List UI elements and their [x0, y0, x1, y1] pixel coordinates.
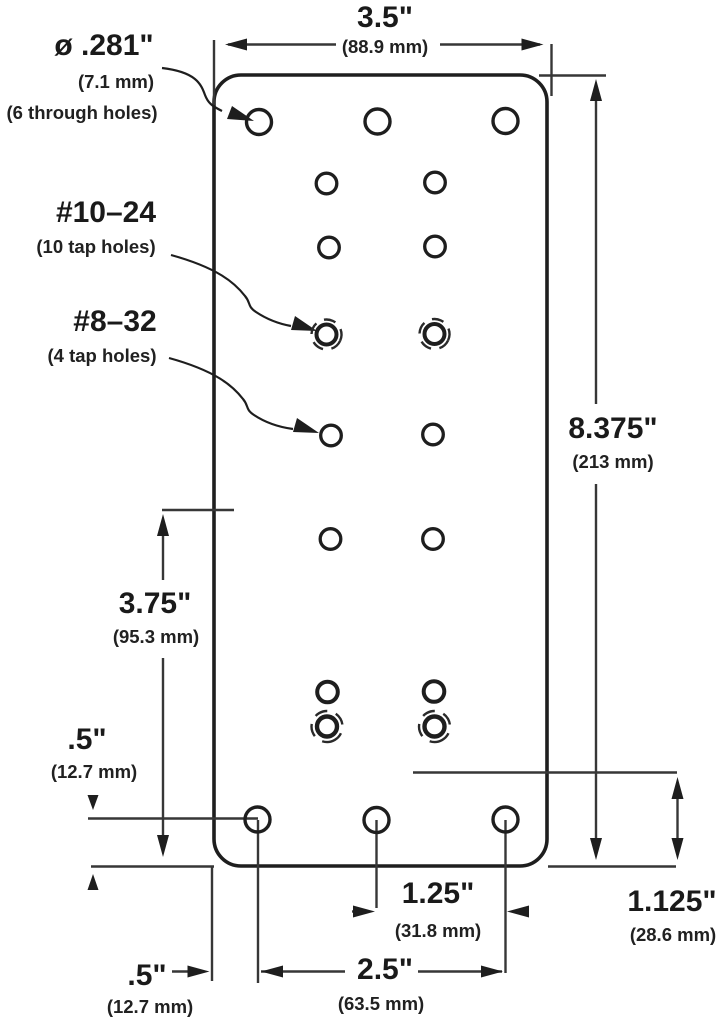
svg-text:ø .281": ø .281" [54, 29, 153, 62]
hole row3 left [319, 237, 340, 258]
svg-text:(31.8 mm): (31.8 mm) [395, 920, 481, 941]
extension line below middle bottom hole [375, 820, 377, 908]
svg-text:(213 mm): (213 mm) [572, 451, 653, 472]
svg-text:3.75": 3.75" [119, 587, 192, 620]
svg-text:8.375": 8.375" [568, 412, 657, 445]
extension line left of 3.5 dim [213, 40, 215, 105]
tap hole row4 left arcs [307, 315, 347, 355]
dimension line 3.75 lower shaft [162, 658, 164, 840]
leader arrowhead dia .281 [227, 106, 254, 121]
svg-text:(95.3 mm): (95.3 mm) [113, 626, 199, 647]
extension line below plate left edge [211, 867, 213, 982]
arrowhead 1.125 bottom [672, 838, 684, 860]
svg-text:#10–24: #10–24 [56, 196, 156, 229]
arrowhead 8.375 top [590, 79, 602, 101]
hole top-right (through) [493, 109, 518, 134]
arrowhead .5 upper top (points down) [88, 795, 99, 810]
dimension line 1.125 shaft [676, 790, 678, 850]
plate outline [214, 75, 547, 866]
svg-text:(12.7 mm): (12.7 mm) [107, 996, 193, 1017]
hole row2 right [425, 172, 446, 193]
arrowhead .5 upper bottom (points up) [88, 874, 99, 890]
hole row5 left [321, 425, 342, 446]
hole row6 right [423, 529, 444, 550]
arrowhead 3.75 bottom [157, 835, 169, 857]
hole row3 right [425, 236, 446, 257]
tap hole row4 right arcs [415, 314, 455, 354]
tap hole row4 right [425, 324, 445, 344]
svg-text:(12.7 mm): (12.7 mm) [51, 761, 137, 782]
hole row7 right [424, 681, 445, 702]
svg-text:3.5": 3.5" [357, 1, 413, 34]
dimension line 2.5 left segment [261, 970, 345, 972]
svg-text:(88.9 mm): (88.9 mm) [342, 36, 428, 57]
extension line right of 3.5 dim [550, 44, 552, 96]
svg-text:(7.1 mm): (7.1 mm) [78, 71, 154, 92]
extension line below right bottom hole [504, 820, 506, 973]
leader arrowhead #10-24 [291, 316, 317, 331]
arrowhead 3.5 right [522, 39, 544, 51]
leader arrowhead #8-32 [293, 418, 319, 433]
arrowhead 8.375 bottom [590, 838, 602, 860]
extension line bottom edge left [91, 865, 214, 867]
hole row6 left [320, 529, 341, 550]
tap hole row4 left [317, 325, 337, 345]
dimension line 3.75 upper shaft [162, 530, 164, 580]
extension line bottom hole centerline left [88, 817, 258, 819]
arrowhead 2.5 right [481, 966, 503, 978]
svg-text:.5": .5" [67, 723, 106, 756]
leader dia .281 [162, 68, 222, 111]
extension line top of 1.125 dim [413, 771, 677, 773]
dimension line 8.375 upper shaft [595, 96, 597, 404]
svg-text:1.25": 1.25" [402, 877, 475, 910]
tap hole row8 left [317, 717, 337, 737]
hole bottom-left (through) [245, 807, 270, 832]
svg-text:#8–32: #8–32 [73, 305, 156, 338]
arrowhead 2.5 left [261, 966, 283, 978]
hole bottom-right (through) [493, 807, 518, 832]
dimension line 8.375 lower shaft [595, 484, 597, 843]
arrowhead 1.25 right (points left) with tail [507, 906, 529, 918]
tap hole row8 right [425, 717, 445, 737]
svg-text:(63.5 mm): (63.5 mm) [338, 993, 424, 1014]
arrowhead 1.125 top [672, 777, 684, 799]
hole row5 right [423, 424, 444, 445]
extension line top of 3.75 dim [162, 509, 234, 511]
arrowhead .5 bottom (points right) with tail [172, 970, 190, 972]
hole row2 left [316, 173, 337, 194]
svg-text:2.5": 2.5" [357, 953, 413, 986]
hole row7 left [317, 682, 338, 703]
arrowhead 1.25 left (points right) with tail [352, 910, 358, 912]
dimension line 3.5 left segment [228, 43, 336, 45]
arrowhead 3.75 top [157, 514, 169, 536]
extension line top of 8.375 dim [539, 74, 606, 76]
dimension line 2.5 right segment [418, 970, 502, 972]
svg-text:(28.6 mm): (28.6 mm) [630, 924, 716, 945]
extension line below left bottom hole [257, 820, 259, 983]
hole top-left (through) [247, 110, 272, 135]
tap hole row8 right arcs [413, 705, 455, 747]
extension line bottom of 8.375 / 1.125 dim [548, 865, 676, 867]
hole bottom-middle (through) [364, 808, 389, 833]
svg-text:1.125": 1.125" [627, 885, 716, 918]
svg-text:.5": .5" [127, 959, 166, 992]
tap hole row8 left arcs [306, 705, 348, 747]
arrowhead 3.5 left [225, 39, 247, 51]
svg-text:(6 through holes): (6 through holes) [6, 102, 157, 123]
svg-text:(4 tap holes): (4 tap holes) [48, 345, 157, 366]
svg-text:(10 tap holes): (10 tap holes) [36, 236, 155, 257]
dimension line 3.5 right segment [440, 43, 540, 45]
leader #8-32 [169, 358, 293, 429]
hole top-middle (through) [365, 109, 390, 134]
leader #10-24 [171, 255, 291, 326]
